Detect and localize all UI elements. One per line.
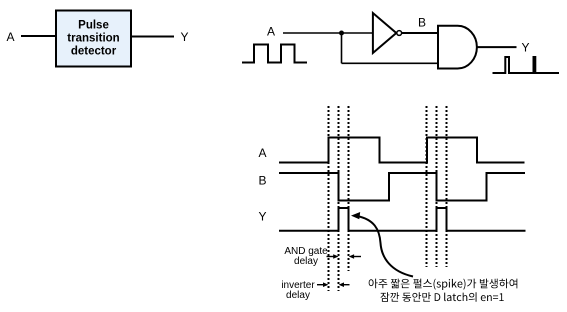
wire junction down xyxy=(341,33,343,63)
svg-text:B: B xyxy=(418,16,426,30)
signal B waveform xyxy=(279,173,525,201)
svg-text:A: A xyxy=(267,24,275,38)
AND gate delay left arrow xyxy=(327,256,335,258)
wire B: inverter output to AND gate upper input xyxy=(402,32,438,34)
dotted timing line t5 xyxy=(436,106,438,267)
wire AND gate output to Y xyxy=(477,46,517,48)
inverter delay left arrow xyxy=(317,284,324,286)
svg-text:delay: delay xyxy=(294,256,318,267)
svg-text:A: A xyxy=(7,30,15,44)
junction node dot xyxy=(339,31,344,36)
svg-text:Y: Y xyxy=(259,210,267,224)
svg-text:B: B xyxy=(259,174,267,188)
wire A to detector block xyxy=(21,35,56,37)
wire A to inverter input xyxy=(283,32,373,34)
inverter U2 triangle xyxy=(373,13,396,53)
svg-text:Y: Y xyxy=(181,30,189,44)
dotted timing line t6 xyxy=(446,106,448,267)
signal A waveform xyxy=(279,138,525,163)
inverter U2 bubble xyxy=(397,31,402,36)
AND gate delay right arrow xyxy=(353,256,361,258)
annotation korean text line 1 xyxy=(369,279,518,290)
dotted timing line t2 xyxy=(338,106,340,291)
svg-text:detector: detector xyxy=(71,46,117,58)
svg-text:A: A xyxy=(259,146,267,160)
dotted timing line t1 xyxy=(328,106,330,291)
svg-text:delay: delay xyxy=(286,290,310,301)
signal Y waveform with spikes xyxy=(279,208,526,231)
dotted timing line t3 xyxy=(348,106,350,271)
svg-text:Y: Y xyxy=(522,40,530,54)
annotation curved arrow to Y spike xyxy=(357,216,413,277)
svg-text:Pulse: Pulse xyxy=(78,20,109,32)
svg-text:transition: transition xyxy=(67,33,119,45)
dotted timing line t4 xyxy=(426,106,428,267)
wire detector block to Y xyxy=(131,36,174,38)
output spike waveform under Y xyxy=(493,57,560,73)
input square wave under A xyxy=(242,45,307,63)
block U1: pulse transition detector box xyxy=(56,11,131,67)
AND gate U3 xyxy=(438,26,477,69)
annotation korean text line 2 xyxy=(381,292,504,302)
wire to AND gate lower input xyxy=(342,62,439,64)
inverter delay right arrow xyxy=(344,284,350,286)
